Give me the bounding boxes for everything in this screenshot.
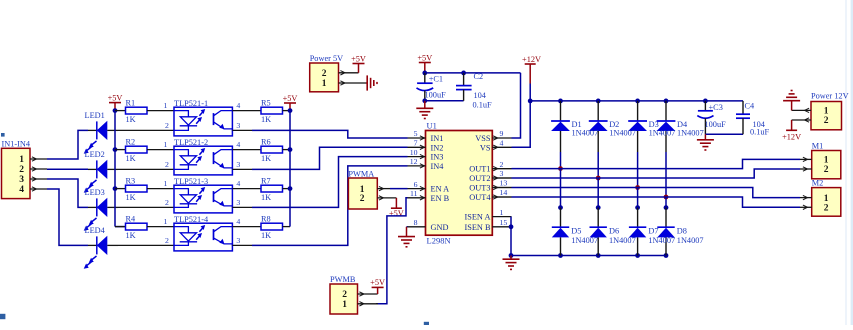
- svg-text:1: 1: [19, 155, 24, 165]
- svg-text:9: 9: [500, 129, 504, 138]
- svg-text:D8: D8: [677, 227, 687, 236]
- LED LED4: [84, 226, 118, 269]
- svg-text:VS: VS: [480, 143, 491, 152]
- sheet marker square left: [1, 133, 5, 137]
- svg-text:6: 6: [414, 180, 418, 189]
- svg-text:1: 1: [824, 194, 829, 204]
- resistor R7: [232, 176, 290, 202]
- svg-text:0.1uF: 0.1uF: [750, 127, 770, 136]
- svg-text:R3: R3: [126, 176, 136, 185]
- svg-text:4: 4: [236, 101, 240, 110]
- wire LED2 anode to opto pin 2: [118, 168, 174, 170]
- svg-text:LED4: LED4: [85, 226, 106, 235]
- svg-text:1K: 1K: [126, 154, 136, 163]
- wire IN1 to LED1: [47, 130, 88, 159]
- sheet marker square bottom: [424, 322, 429, 325]
- svg-text:1K: 1K: [261, 154, 271, 163]
- svg-text:GND: GND: [431, 223, 449, 232]
- optocoupler TLP521-1: [164, 99, 241, 136]
- svg-text:1N4007: 1N4007: [609, 129, 636, 138]
- svg-text:100uF: 100uF: [425, 91, 447, 100]
- svg-text:12: 12: [410, 157, 418, 166]
- connector Power 12V: [792, 91, 849, 130]
- wire opto3 pin3 to U1 IN3: [232, 206, 252, 208]
- svg-text:IN3: IN3: [431, 153, 444, 162]
- svg-text:1K: 1K: [261, 193, 271, 202]
- label D5: [571, 227, 598, 245]
- +5V symbol right rail: [283, 94, 298, 111]
- +5V symbol at PWMB: [370, 278, 385, 294]
- svg-text:+12V: +12V: [522, 55, 541, 64]
- op-amp U1 L298N body: [426, 121, 493, 246]
- svg-text:+5V: +5V: [108, 93, 123, 102]
- wire LED3 anode to opto pin 2: [118, 206, 174, 208]
- +12V symbol inverted at Power 12V: [782, 120, 801, 141]
- svg-text:R7: R7: [261, 176, 271, 185]
- svg-text:1: 1: [322, 79, 327, 89]
- wire +5V left rail: [114, 111, 116, 227]
- svg-text:2: 2: [500, 160, 504, 169]
- wire OUT2 column to D6: [597, 178, 599, 208]
- resistor R5: [232, 98, 290, 124]
- svg-text:+12V: +12V: [782, 132, 801, 141]
- svg-text:2: 2: [165, 160, 169, 169]
- svg-text:1N4007: 1N4007: [609, 236, 636, 245]
- wire +12V to U1 VS: [512, 84, 531, 148]
- ground at ISEN rail: [503, 256, 520, 270]
- diode D2 1N4007: [589, 101, 608, 152]
- ground under C1: [416, 101, 433, 119]
- svg-text:C4: C4: [745, 102, 756, 111]
- wire opto2 pin3 to U1 IN2: [232, 168, 252, 170]
- svg-text:ISEN A: ISEN A: [464, 213, 490, 222]
- svg-text:TLP521-1: TLP521-1: [174, 99, 208, 108]
- resistor R1: [115, 98, 174, 124]
- svg-text:IN2: IN2: [431, 143, 444, 152]
- wire LED1 anode to opto pin 2: [118, 129, 174, 131]
- svg-text:2: 2: [165, 198, 169, 207]
- svg-text:OUT4: OUT4: [469, 193, 491, 202]
- svg-text:15: 15: [500, 218, 508, 227]
- diode D8 1N4007: [657, 208, 674, 256]
- svg-text:2: 2: [322, 69, 327, 79]
- svg-text:2: 2: [824, 204, 829, 214]
- svg-text:IN1-IN4: IN1-IN4: [2, 139, 31, 148]
- U1 pin names left: [431, 134, 450, 232]
- svg-text:1: 1: [342, 300, 347, 310]
- wire OUT4 to M2 pin2: [492, 196, 511, 198]
- wire LED4 anode to opto pin 2: [118, 244, 174, 246]
- wire U1 EN B to PWMB pin1: [376, 198, 408, 304]
- resistor R6: [232, 137, 290, 163]
- wire +5V top rail to VSS: [425, 72, 521, 74]
- resistor R8: [232, 214, 290, 240]
- U1 pins right: [492, 129, 511, 227]
- svg-text:U1: U1: [427, 121, 437, 131]
- label D8: [677, 227, 704, 245]
- window edge strip: [851, 0, 853, 325]
- wire C1 to C2 bottom: [425, 100, 464, 102]
- svg-text:1: 1: [164, 179, 168, 188]
- svg-text:IN4: IN4: [431, 162, 445, 171]
- svg-text:104: 104: [474, 91, 487, 100]
- svg-text:M2: M2: [812, 178, 824, 187]
- ground inverted at Power 12V: [783, 91, 800, 111]
- svg-text:11: 11: [410, 189, 418, 198]
- wire +12V rail: [530, 100, 743, 102]
- optocoupler TLP521-4: [164, 215, 241, 251]
- connector M2: [803, 178, 841, 216]
- wire diode bottom rail: [511, 255, 666, 257]
- svg-text:3: 3: [19, 175, 24, 185]
- optocoupler TLP521-2: [164, 138, 241, 175]
- svg-text:TLP521-4: TLP521-4: [174, 215, 209, 224]
- connector PWMA: [348, 169, 396, 209]
- +5V symbol at C1: [417, 53, 432, 73]
- svg-text:1: 1: [824, 156, 829, 166]
- svg-text:2: 2: [360, 194, 365, 204]
- svg-text:LED3: LED3: [85, 188, 105, 197]
- svg-text:OUT3: OUT3: [469, 184, 490, 193]
- svg-text:+5V: +5V: [417, 53, 432, 62]
- diode D4 1N4007: [657, 101, 676, 152]
- label D6: [609, 227, 636, 245]
- label D3: [649, 120, 676, 137]
- svg-text:+5V: +5V: [351, 54, 366, 63]
- svg-text:LED2: LED2: [85, 150, 105, 159]
- svg-text:R2: R2: [126, 137, 136, 146]
- label D2: [609, 120, 636, 137]
- diode D3 1N4007: [628, 101, 647, 152]
- svg-text:4: 4: [236, 140, 240, 149]
- svg-text:1K: 1K: [126, 115, 136, 124]
- svg-text:3: 3: [236, 236, 240, 245]
- svg-text:1N4007: 1N4007: [648, 236, 675, 245]
- svg-text:Power 5V: Power 5V: [310, 54, 343, 63]
- svg-text:R8: R8: [261, 214, 271, 223]
- diode D6 1N4007: [590, 208, 607, 256]
- svg-text:1K: 1K: [261, 115, 271, 124]
- svg-text:OUT2: OUT2: [469, 174, 490, 183]
- wire U1 ISEN A/B to ground rail: [510, 217, 512, 256]
- svg-text:PWMB: PWMB: [330, 275, 356, 284]
- svg-text:4: 4: [236, 217, 240, 226]
- svg-text:3: 3: [236, 198, 240, 207]
- wire C3 to C4 bottom: [705, 133, 743, 135]
- svg-text:14: 14: [500, 188, 508, 197]
- wire PWMA pin1 to U1 EN A: [390, 188, 408, 190]
- svg-text:+5V: +5V: [283, 94, 298, 103]
- diode D5 1N4007: [552, 208, 569, 256]
- wire U1 VSS to +5V rail: [512, 73, 521, 138]
- svg-text:1: 1: [164, 101, 168, 110]
- +12V symbol: [522, 55, 541, 84]
- label D4: [677, 120, 704, 137]
- LED LED3: [84, 188, 118, 231]
- wire OUT4 column to D8: [665, 197, 667, 208]
- svg-text:ISEN B: ISEN B: [464, 223, 491, 232]
- svg-text:Power 12V: Power 12V: [811, 91, 849, 100]
- svg-text:C2: C2: [474, 72, 484, 81]
- wire IN3 to LED3: [47, 179, 88, 207]
- label D1: [572, 120, 599, 137]
- svg-text:8: 8: [414, 218, 418, 227]
- svg-text:1N4007: 1N4007: [649, 129, 676, 138]
- wire U1 GND pin: [407, 226, 408, 228]
- capacitor C4: [736, 101, 770, 136]
- svg-text:VSS: VSS: [475, 134, 491, 143]
- svg-text:1K: 1K: [126, 193, 136, 202]
- sheet marker square bottom left: [0, 314, 5, 319]
- connector Power 5V: [310, 54, 366, 92]
- resistor R2: [115, 137, 174, 163]
- svg-text:1N4007: 1N4007: [572, 129, 599, 138]
- wire opto4 pin3 to U1 IN4: [232, 244, 252, 246]
- svg-text:1K: 1K: [126, 231, 136, 240]
- svg-text:IN1: IN1: [431, 134, 444, 143]
- wire +5V right rail: [289, 111, 291, 227]
- resistor R3: [115, 176, 174, 202]
- wire OUT2 to M1 pin2: [492, 177, 511, 179]
- ground sideways at Power 5V: [366, 75, 377, 90]
- svg-text:TLP521-3: TLP521-3: [174, 177, 208, 186]
- U1 pins left: [408, 129, 426, 227]
- svg-text:+5V: +5V: [370, 278, 385, 287]
- svg-text:3: 3: [500, 169, 504, 178]
- diode D1 1N4007: [551, 101, 570, 152]
- svg-text:0.1uF: 0.1uF: [473, 100, 493, 109]
- svg-text:LED1: LED1: [85, 111, 105, 120]
- svg-text:M1: M1: [812, 141, 824, 150]
- wire OUT3 column to D7: [637, 188, 639, 208]
- svg-text:4: 4: [19, 185, 24, 195]
- wire OUT3 to M2 pin1: [492, 187, 511, 189]
- connector IN1-IN4: [2, 139, 48, 198]
- wire opto1 pin3 to U1 IN1: [232, 129, 252, 131]
- svg-text:1N4007: 1N4007: [677, 129, 704, 138]
- svg-text:EN B: EN B: [431, 194, 450, 203]
- svg-text:1K: 1K: [261, 231, 271, 240]
- svg-text:2: 2: [824, 165, 829, 175]
- svg-text:PWMA: PWMA: [348, 169, 374, 178]
- svg-text:OUT1: OUT1: [469, 165, 490, 174]
- svg-text:10: 10: [410, 148, 418, 157]
- svg-text:7: 7: [414, 139, 418, 148]
- svg-text:2: 2: [19, 165, 24, 175]
- U1 pin names right: [464, 134, 491, 232]
- svg-text:R5: R5: [261, 98, 271, 107]
- optocoupler TLP521-3: [164, 177, 241, 213]
- +5V symbol left rail: [108, 93, 123, 110]
- label D7: [648, 227, 675, 245]
- svg-text:R1: R1: [126, 98, 136, 107]
- svg-text:1: 1: [824, 107, 829, 117]
- wire D1 anode to OUT1: [560, 152, 562, 169]
- ground at U1 GND: [398, 227, 415, 247]
- svg-text:R4: R4: [126, 214, 137, 223]
- wire D3 anode to OUT3: [637, 152, 639, 188]
- svg-text:+C3: +C3: [709, 103, 723, 112]
- svg-text:4: 4: [500, 139, 504, 148]
- svg-text:3: 3: [236, 160, 240, 169]
- svg-text:L298N: L298N: [427, 236, 451, 246]
- svg-text:1: 1: [500, 208, 504, 217]
- svg-text:2: 2: [165, 236, 169, 245]
- resistor R4: [115, 214, 174, 240]
- svg-text:2: 2: [165, 121, 169, 130]
- svg-text:1N4007: 1N4007: [571, 236, 598, 245]
- wire D4 anode to OUT4: [665, 152, 667, 197]
- svg-text:2: 2: [824, 116, 829, 126]
- svg-text:R6: R6: [261, 137, 271, 146]
- svg-text:5: 5: [414, 129, 418, 138]
- +5V symbol inverted at PWMA: [389, 198, 404, 218]
- svg-text:D5: D5: [571, 227, 581, 236]
- svg-text:+C1: +C1: [429, 74, 443, 83]
- svg-text:4: 4: [236, 179, 240, 188]
- connector PWMB: [330, 275, 378, 314]
- wire OUT1 column to D5: [560, 169, 562, 208]
- diode D7 1N4007: [629, 208, 646, 256]
- wire D2 anode to OUT2: [597, 152, 599, 178]
- svg-text:1: 1: [164, 217, 168, 226]
- LED LED1: [84, 111, 118, 154]
- svg-text:EN A: EN A: [431, 185, 450, 194]
- capacitor C2: [456, 72, 492, 109]
- wire OUT1 to M1 pin1: [492, 168, 511, 170]
- svg-text:TLP521-2: TLP521-2: [174, 138, 208, 147]
- svg-text:1N4007: 1N4007: [677, 236, 704, 245]
- svg-text:100uF: 100uF: [705, 120, 727, 129]
- svg-text:13: 13: [500, 179, 508, 188]
- svg-text:D7: D7: [648, 227, 658, 236]
- connector M1: [803, 141, 841, 179]
- +5V symbol at Power 5V: [351, 54, 366, 73]
- svg-text:D6: D6: [609, 227, 619, 236]
- capacitor C1: [417, 73, 447, 101]
- wire IN2 to LED2: [47, 168, 88, 170]
- svg-text:2: 2: [342, 290, 347, 300]
- ground under C3: [697, 134, 714, 150]
- capacitor C3: [697, 101, 726, 134]
- svg-text:1: 1: [164, 140, 168, 149]
- wire IN4 to LED4: [47, 189, 88, 245]
- LED LED2: [84, 150, 118, 193]
- svg-text:3: 3: [236, 121, 240, 130]
